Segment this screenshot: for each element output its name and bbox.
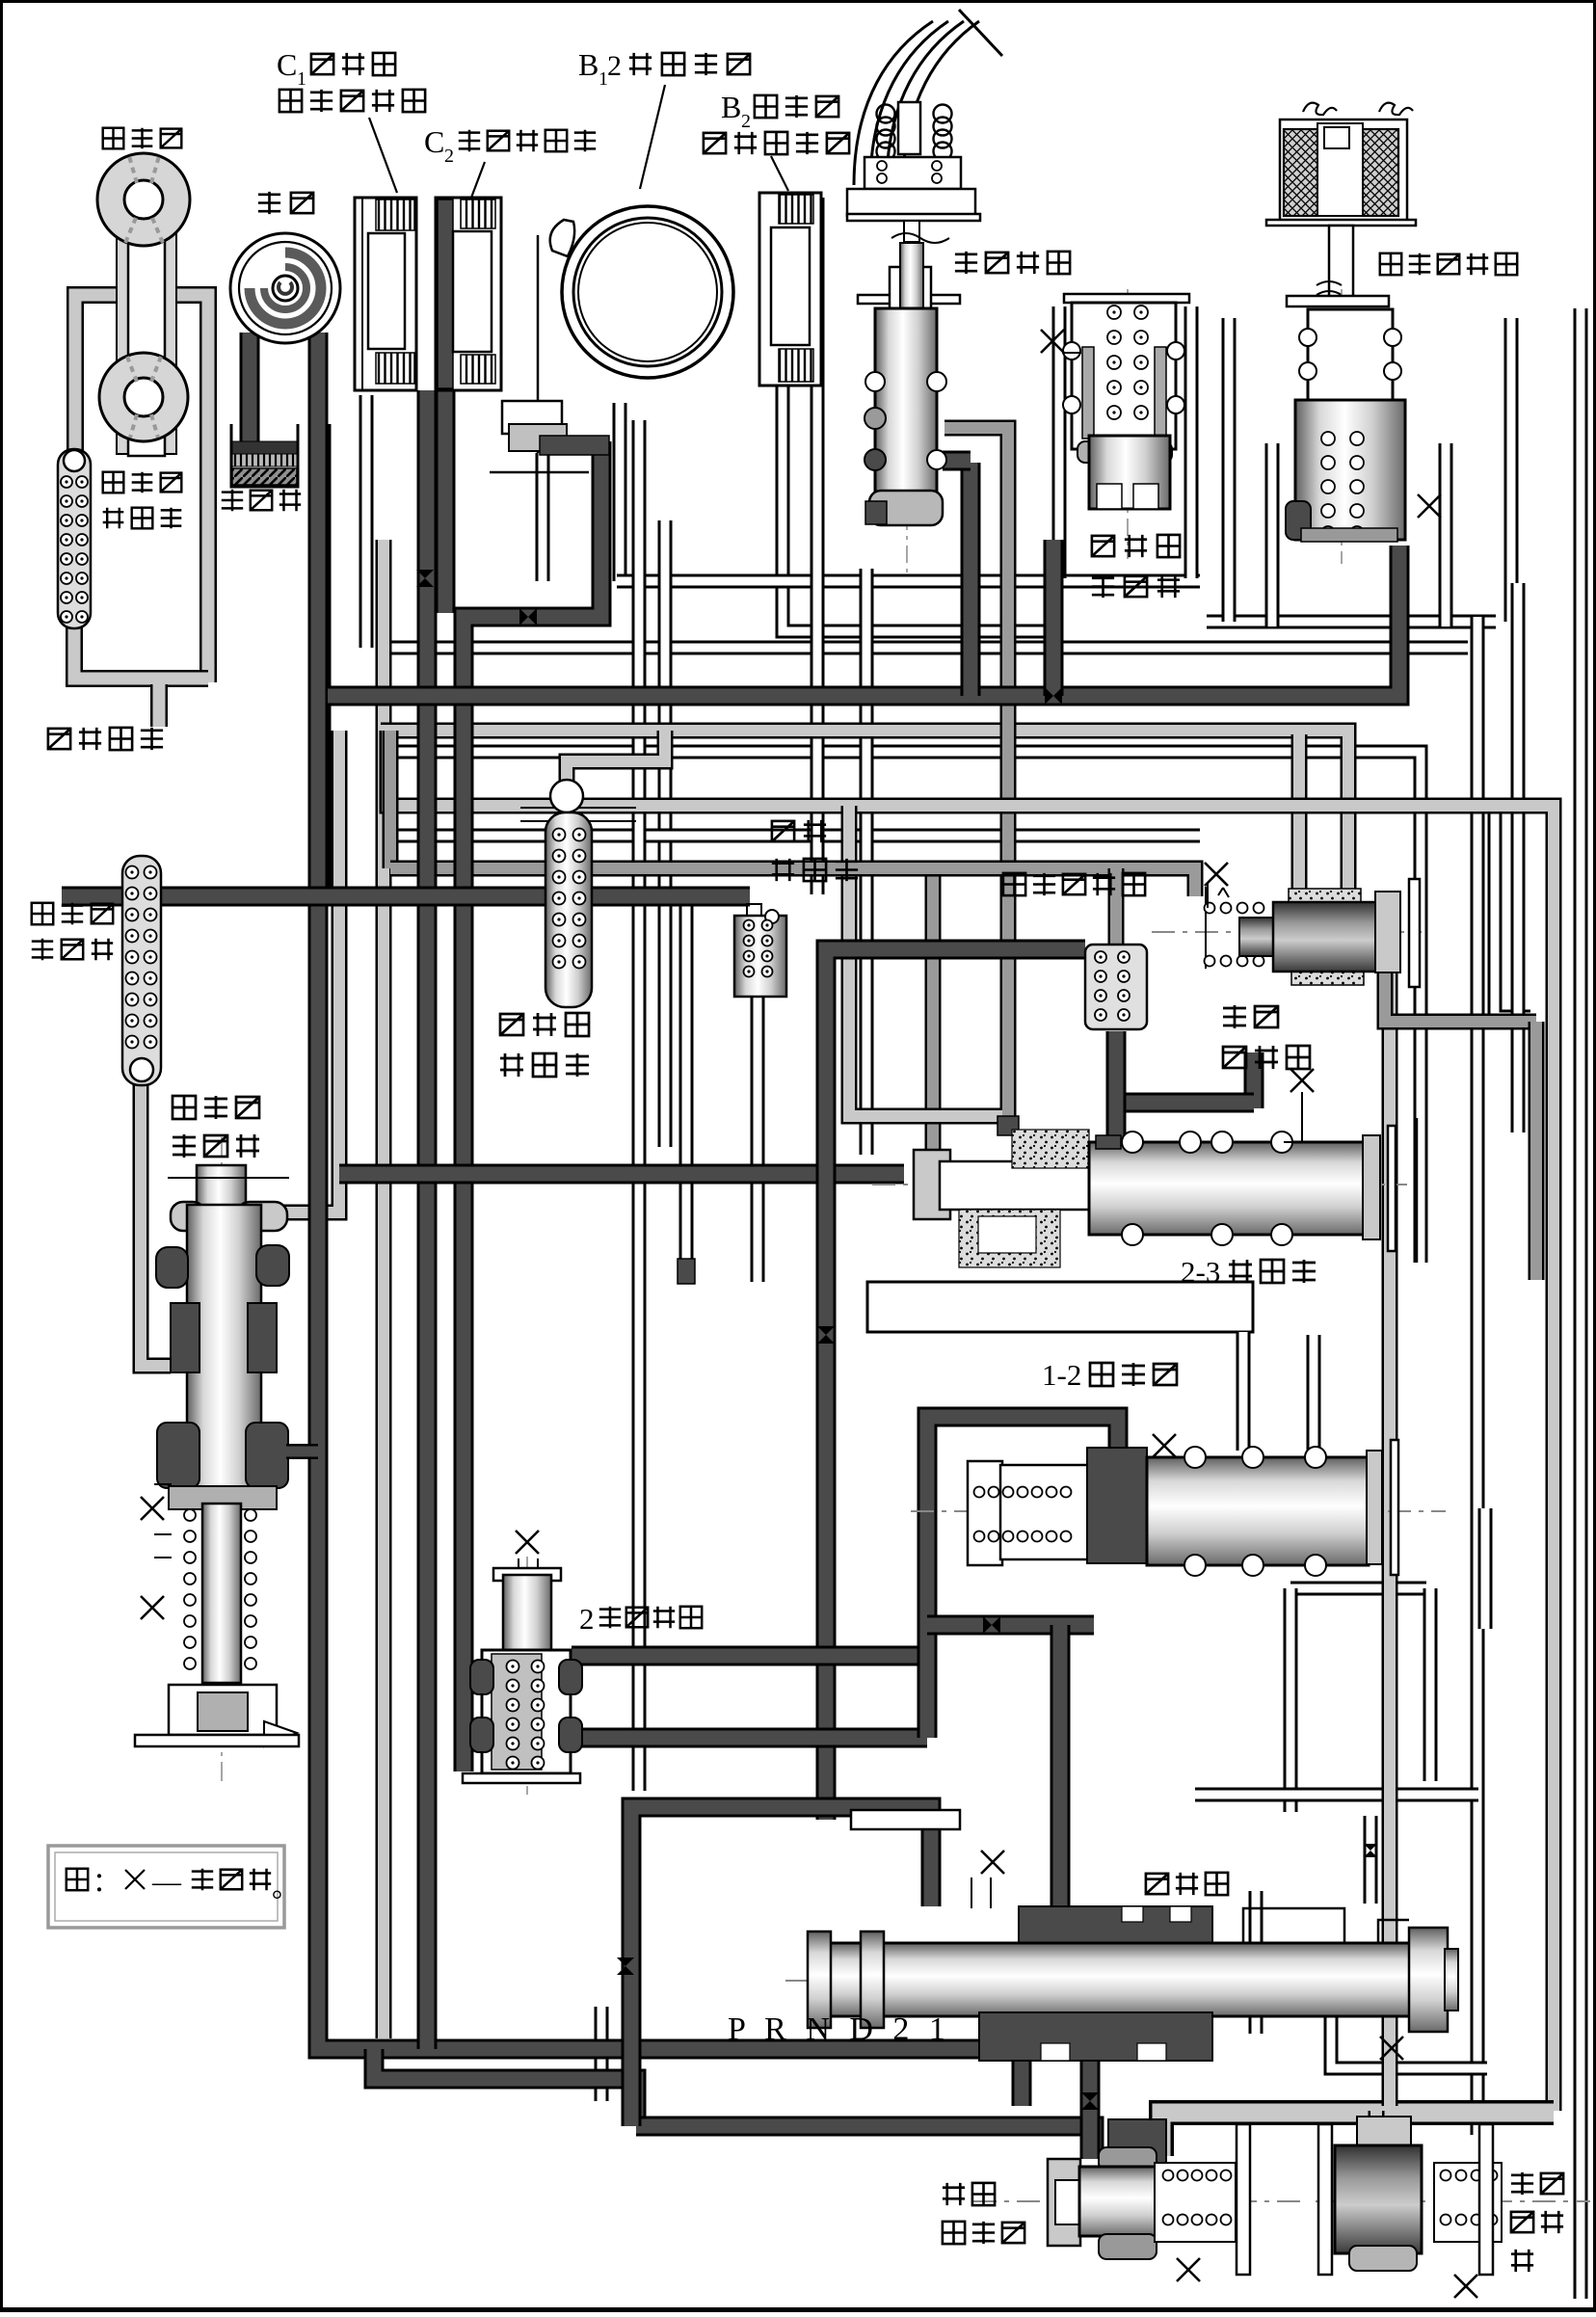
svg-text:B: B	[578, 47, 598, 82]
svg-text:—: —	[151, 1866, 182, 1898]
svg-text:1: 1	[297, 68, 306, 90]
svg-text:2: 2	[607, 50, 622, 82]
svg-text:C: C	[277, 47, 297, 82]
svg-text:2: 2	[444, 146, 454, 167]
svg-text:2: 2	[579, 1602, 595, 1636]
svg-text:P R N D 2 1: P R N D 2 1	[728, 2011, 951, 2047]
svg-text:2: 2	[741, 111, 751, 132]
svg-text:：: ：	[93, 1868, 120, 1898]
svg-text:C: C	[424, 124, 444, 159]
svg-text:。: 。	[272, 1874, 299, 1904]
svg-text:1-2: 1-2	[1042, 1358, 1081, 1392]
svg-text:B: B	[721, 90, 741, 124]
svg-text:2-3: 2-3	[1181, 1255, 1220, 1289]
